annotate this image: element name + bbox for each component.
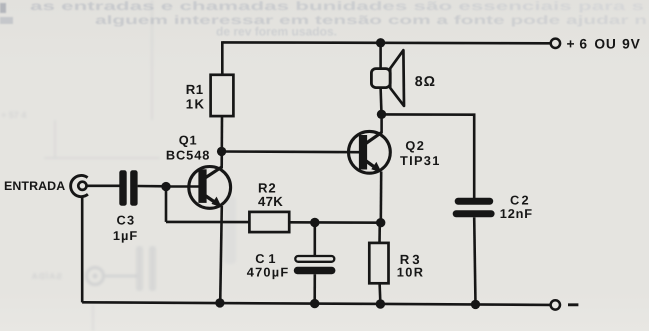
resistor R2 [249,212,289,232]
wire: Q1 collector to Q2 base [222,150,360,153]
label C3 1uF [113,212,138,243]
node: supply rail / speaker top [376,38,385,47]
svg-text:ENTRADA: ENTRADA [4,179,65,193]
wire: jack shield down to ground rail [81,196,84,303]
node: C2 on ground rail [471,300,480,309]
wire: C1 bottom to ground rail [313,274,316,303]
node: R3 on ground rail [376,299,385,308]
svg-text:R1: R1 [186,82,204,97]
wire: collector node to C2 branch [382,114,475,198]
svg-text:Q1: Q1 [179,133,198,148]
wire: C3 to base node [138,185,166,188]
wire: R2 right to Q2 emitter node [289,221,381,224]
svg-text:as entradas e chamadas bunidad: as entradas e chamadas bunidades são ess… [30,0,645,13]
ghost electrolytic bars [136,196,236,291]
wire: ground rail [82,302,550,305]
capacitor C3 [119,170,137,205]
ghost show-through text line 3 [216,25,337,39]
node: Q1 emitter on ground rail [215,298,224,307]
svg-text:SAÍDA: SAÍDA [31,271,62,281]
wire: C1 top lead [313,223,316,257]
ghost show-through text line 2 [95,13,647,27]
svg-text:de rev forem usados.: de rev forem usados. [216,25,337,39]
wire: Q1 base lead [166,185,200,188]
label R3 10R [397,252,425,279]
wire: Q1 emitter down to ground rail [220,206,222,303]
label R1 1K [186,82,206,112]
svg-text:12nF: 12nF [500,206,533,221]
svg-text:470µF: 470µF [247,265,290,280]
wire: C2 bottom to ground rail [474,217,475,304]
node: speaker bottom / Q2 collector [377,110,386,119]
input jack J1 [71,175,88,196]
ghost mark left margin [1,110,26,120]
svg-text:alguem interessar em tensão co: alguem interessar em tensão com a fonte … [95,13,647,27]
node: C1 on ground rail [310,299,319,308]
svg-text:10R: 10R [397,264,425,279]
terminal minus circle [551,300,560,309]
wire: Q2 collector up to speaker node [380,114,383,133]
speaker LS1 8 ohm [371,50,404,106]
svg-text:47K: 47K [258,194,283,209]
transistor Q2 TIP31 [349,131,391,173]
ghost jack SAIDA [31,268,137,285]
label minus [568,303,578,306]
label C1 470uF [247,251,290,280]
ghost page-edge fragment top-left [0,3,13,24]
label Q2 TIP31 [400,138,441,168]
ghost show-through text line 1 [30,0,645,13]
wire: R1 top [221,41,224,75]
svg-text:C3: C3 [117,212,136,227]
svg-text:TIP31: TIP31 [400,153,441,168]
wire: speaker bottom lead [379,88,382,115]
ghost faint wires [44,0,160,331]
node: Q1 collector / Q2 base junction [217,147,226,156]
svg-text:1K: 1K [186,97,206,112]
terminal +6/9V circle [551,39,560,48]
svg-text:+ 57 4: + 57 4 [1,110,26,120]
label C2 12nF [500,193,533,222]
wire: feedback run to R2 [166,221,250,224]
wire: top supply rail [223,41,551,44]
resistor R1 [211,75,234,116]
wire: R3 bottom to ground rail [378,283,381,304]
wire: R3 top lead [378,223,381,243]
label R2 47K [258,180,283,209]
node: Q2 emitter junction [376,218,385,227]
capacitor C2 [453,198,495,218]
wire: Q2 emitter down to node [379,172,382,223]
node: C1 top junction [310,218,319,227]
svg-text:Q2: Q2 [405,138,425,153]
resistor R3 [369,243,388,283]
transistor Q1 BC548 [189,167,231,209]
wire: base node down [165,187,168,222]
capacitor C1 (electrolytic) [294,256,336,274]
svg-text:BC548: BC548 [166,148,210,163]
node: Q1 base / R2 branch [161,182,170,191]
label Q1 BC548 [166,133,210,163]
svg-text:8Ω: 8Ω [415,74,436,90]
wire: speaker top lead [379,43,382,69]
wire: R1 bottom to Q1 collector [220,116,223,168]
wire: jack center to C3 [87,185,120,188]
svg-text:1µF: 1µF [113,228,138,243]
